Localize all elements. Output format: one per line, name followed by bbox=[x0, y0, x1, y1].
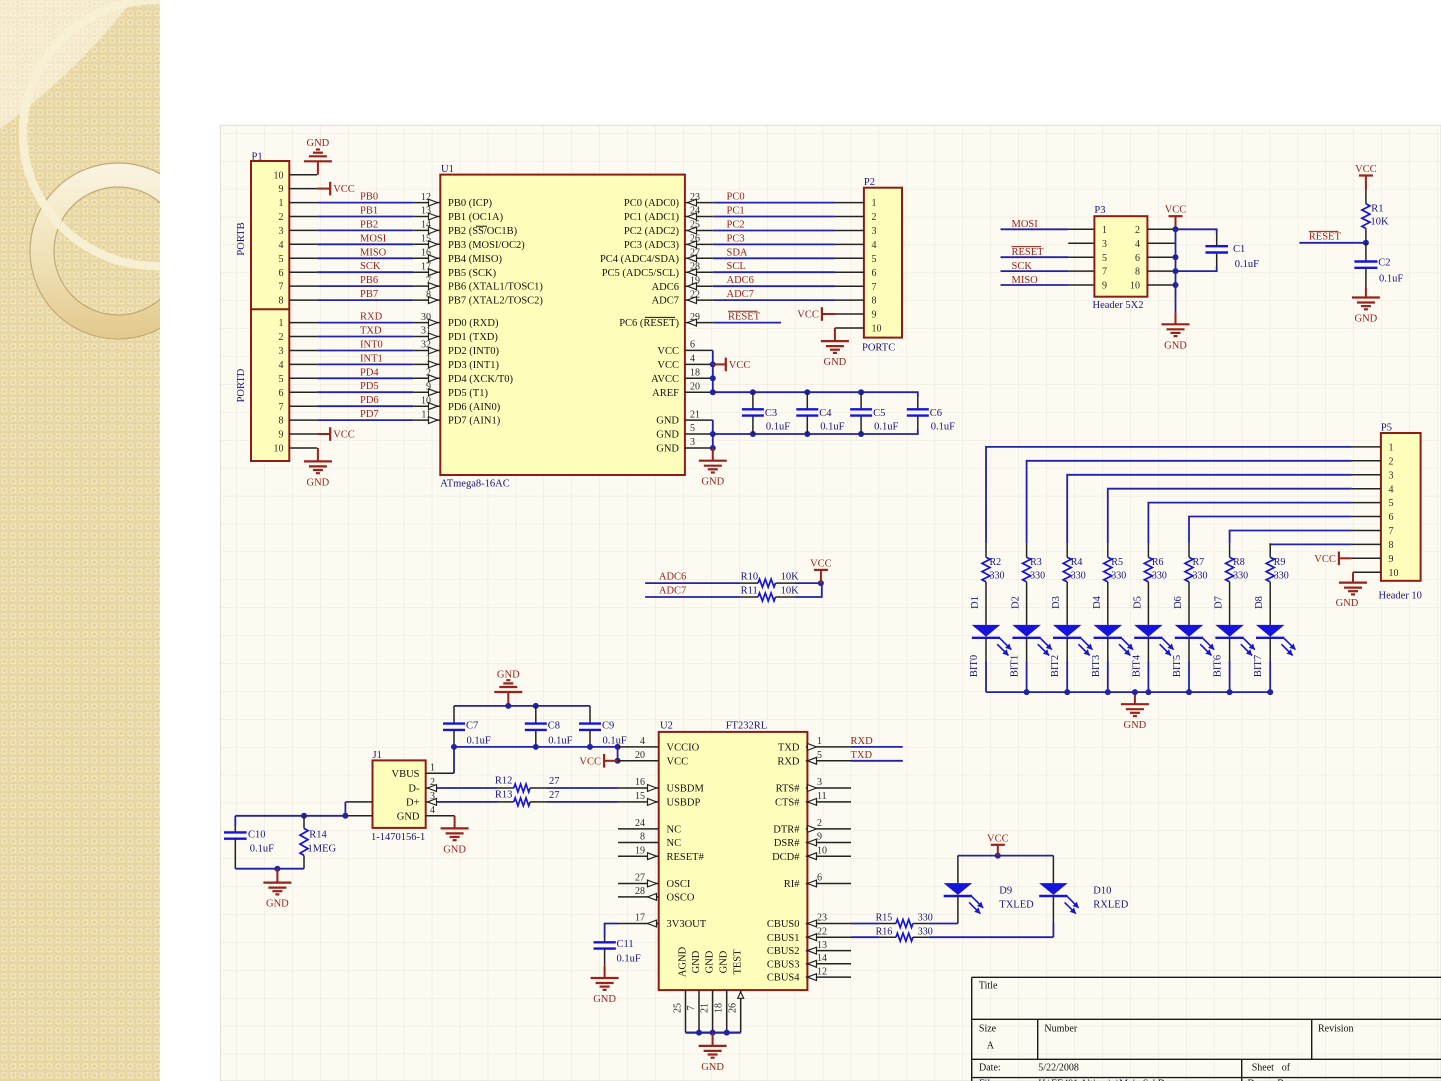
svg-text:17: 17 bbox=[421, 261, 431, 272]
svg-text:CBUS4: CBUS4 bbox=[767, 973, 800, 984]
wire P3 right pin lead bbox=[1147, 228, 1175, 230]
power VCC (P3) bbox=[1169, 215, 1183, 217]
wire P3 left pin lead bbox=[1068, 256, 1094, 258]
capacitor C7 0.1uF bbox=[453, 706, 455, 724]
wire P5 pin 4 to LED column 4 bbox=[1352, 488, 1381, 490]
resistor R15 330 bbox=[851, 923, 879, 925]
svg-text:3: 3 bbox=[1102, 239, 1107, 250]
capacitor C8 0.1uF bbox=[535, 706, 537, 724]
wire VCCIO bus bbox=[454, 746, 618, 748]
svg-text:1: 1 bbox=[430, 762, 435, 773]
U2 pin 4 VCCIO bbox=[618, 746, 659, 748]
svg-text:10: 10 bbox=[1130, 281, 1140, 292]
svg-text:DSR#: DSR# bbox=[774, 838, 800, 849]
svg-text:PB0: PB0 bbox=[360, 192, 378, 203]
svg-text:ADC6: ADC6 bbox=[652, 282, 679, 293]
svg-text:ADC6: ADC6 bbox=[727, 275, 754, 286]
wire VCCIO to VCC pin bbox=[617, 747, 619, 761]
svg-text:GND: GND bbox=[1336, 598, 1359, 609]
wire P3 left pin lead bbox=[1068, 284, 1094, 286]
capacitor C11 0.1uF bbox=[605, 924, 618, 939]
resistor R7 330 bbox=[1188, 543, 1190, 557]
wire net PB1 bbox=[317, 216, 413, 218]
wire net INT1 bbox=[317, 363, 413, 365]
U1 pin 27 PC4 (ADC4/SDA) bbox=[685, 257, 713, 259]
svg-text:27: 27 bbox=[635, 873, 645, 884]
U1 pin 13 PB1 (OC1A) bbox=[413, 216, 440, 218]
svg-text:0.1uF: 0.1uF bbox=[603, 736, 627, 747]
wire P1 pin lead bbox=[289, 216, 317, 218]
wire net TXD (U2 RXD) bbox=[851, 760, 903, 762]
svg-text:OSCI: OSCI bbox=[667, 879, 691, 890]
svg-text:9: 9 bbox=[1389, 554, 1394, 565]
svg-text:OSCO: OSCO bbox=[667, 893, 695, 904]
svg-text:P5: P5 bbox=[1381, 423, 1392, 434]
LED D6 BIT5 bbox=[1188, 596, 1190, 625]
svg-text:PB3 (MOSI/OC2): PB3 (MOSI/OC2) bbox=[448, 240, 525, 251]
ground GND (P2 pin 10) bbox=[835, 327, 864, 329]
svg-text:of: of bbox=[1282, 1062, 1291, 1073]
svg-text:VCC: VCC bbox=[667, 756, 689, 767]
schematic sheet with grid bbox=[220, 125, 1441, 1081]
wire net MISO bbox=[317, 257, 413, 259]
capacitor C9 0.1uF bbox=[589, 706, 591, 724]
U1 pin 8 PB7 (XTAL2/TOSC2) bbox=[413, 299, 440, 301]
wire P2 pin lead bbox=[835, 243, 864, 245]
wire R10 to VCC node bbox=[795, 582, 821, 584]
wire net MOSI bbox=[317, 243, 413, 245]
LED D4 BIT3 bbox=[1107, 596, 1109, 625]
ground GND (C11) bbox=[604, 966, 606, 978]
wire net PD7 bbox=[317, 419, 413, 421]
svg-text:D9: D9 bbox=[999, 886, 1012, 897]
J1 shield pin lead bbox=[345, 801, 372, 803]
svg-text:PORTB: PORTB bbox=[236, 222, 247, 255]
U1 pin 31 PD1 (TXD) bbox=[413, 336, 440, 338]
connector P1 bbox=[251, 161, 289, 461]
wire P3 left pin lead bbox=[1068, 270, 1094, 272]
svg-text:10: 10 bbox=[274, 170, 284, 181]
svg-text:BIT7: BIT7 bbox=[1253, 655, 1264, 677]
J1 pin 4 lead to ground bbox=[426, 815, 455, 817]
svg-text:10K: 10K bbox=[781, 572, 800, 583]
svg-text:1: 1 bbox=[1102, 225, 1107, 236]
svg-text:MISO: MISO bbox=[360, 247, 387, 258]
wire P2 pin lead bbox=[835, 216, 864, 218]
svg-text:VBUS: VBUS bbox=[391, 769, 419, 780]
svg-text:19: 19 bbox=[635, 845, 645, 856]
svg-text:5: 5 bbox=[690, 423, 695, 434]
svg-text:TXLED: TXLED bbox=[999, 900, 1034, 911]
svg-text:6: 6 bbox=[1389, 512, 1394, 523]
thin cream ring bbox=[23, 0, 289, 266]
svg-text:C8: C8 bbox=[548, 721, 560, 732]
wire net PD5 bbox=[317, 391, 413, 393]
wire P3 left pin lead bbox=[1068, 228, 1094, 230]
svg-text:R10: R10 bbox=[741, 572, 759, 583]
resistor R4 330 bbox=[1066, 543, 1068, 557]
wire P2 pin lead bbox=[835, 299, 864, 301]
U2 TEST pin glyph bbox=[738, 992, 744, 998]
svg-text:32: 32 bbox=[421, 340, 431, 351]
svg-text:R7: R7 bbox=[1193, 557, 1205, 568]
ground GND (C2) bbox=[1365, 288, 1367, 298]
svg-text:PD5 (T1): PD5 (T1) bbox=[448, 388, 488, 399]
svg-text:VCC: VCC bbox=[810, 558, 832, 569]
U2 pin 20 VCC bbox=[618, 760, 659, 762]
wire P5 pin 2 to LED column 2 bbox=[1352, 460, 1381, 462]
svg-text:22: 22 bbox=[817, 926, 827, 937]
svg-text:RXD: RXD bbox=[777, 756, 800, 767]
svg-text:7: 7 bbox=[426, 275, 431, 286]
svg-text:1: 1 bbox=[872, 198, 877, 209]
svg-text:BIT4: BIT4 bbox=[1131, 654, 1142, 677]
svg-text:19: 19 bbox=[690, 275, 700, 286]
svg-text:CBUS3: CBUS3 bbox=[767, 959, 800, 970]
U1 pin 1 PD3 (INT1) bbox=[413, 363, 440, 365]
svg-text:VCC: VCC bbox=[579, 756, 601, 767]
svg-text:ADC6: ADC6 bbox=[659, 572, 686, 583]
svg-text:PORTD: PORTD bbox=[236, 368, 247, 402]
wire C10/R14 bottom bus bbox=[235, 868, 304, 870]
svg-text:VCCIO: VCCIO bbox=[667, 743, 700, 754]
svg-text:GND: GND bbox=[1355, 314, 1378, 325]
svg-text:P3: P3 bbox=[1094, 205, 1105, 216]
svg-text:PB1: PB1 bbox=[360, 206, 378, 217]
svg-text:GND: GND bbox=[497, 670, 520, 681]
svg-text:GND: GND bbox=[656, 444, 679, 455]
wire to C1 bottom bbox=[1176, 267, 1217, 272]
LED D3 BIT2 bbox=[1066, 596, 1068, 625]
svg-text:DTR#: DTR# bbox=[773, 825, 800, 836]
svg-text:PD2 (INT0): PD2 (INT0) bbox=[448, 346, 500, 357]
svg-text:9: 9 bbox=[817, 832, 822, 843]
svg-text:RESET: RESET bbox=[728, 312, 761, 323]
svg-text:25: 25 bbox=[690, 220, 700, 231]
svg-text:18: 18 bbox=[690, 368, 700, 379]
U2 pin 12 CBUS4 bbox=[806, 976, 851, 978]
svg-text:31: 31 bbox=[421, 326, 431, 337]
svg-text:TEST: TEST bbox=[733, 949, 744, 975]
svg-text:PC0: PC0 bbox=[727, 192, 745, 203]
power VCC (pullups) bbox=[814, 569, 828, 571]
IC U2 FT232RL body bbox=[659, 732, 808, 990]
svg-text:17: 17 bbox=[635, 913, 645, 924]
wire P2 pin lead bbox=[835, 285, 864, 287]
svg-text:1: 1 bbox=[426, 354, 431, 365]
svg-text:USBDM: USBDM bbox=[667, 784, 705, 795]
wire P5 pin 5 to LED column 5 bbox=[1352, 502, 1381, 504]
svg-text:U1: U1 bbox=[441, 164, 454, 175]
wire P3 right pin lead bbox=[1147, 270, 1175, 272]
svg-text:D5: D5 bbox=[1132, 596, 1143, 609]
overline SS on PB2 name bbox=[476, 225, 487, 227]
svg-text:12: 12 bbox=[421, 192, 431, 203]
svg-text:CTS#: CTS# bbox=[775, 798, 800, 809]
wire net ADC6 (pullup) bbox=[645, 582, 741, 584]
svg-text:R13: R13 bbox=[495, 790, 513, 801]
capacitor C4 0.1uF bbox=[806, 392, 808, 409]
U1 pin 23 PC0 (ADC0) bbox=[685, 202, 713, 204]
svg-text:TXD: TXD bbox=[778, 743, 800, 754]
U2 pin 23 CBUS0 bbox=[806, 923, 851, 925]
svg-text:330: 330 bbox=[918, 913, 933, 924]
resistor R16 330 bbox=[851, 936, 879, 938]
svg-text:4: 4 bbox=[640, 736, 645, 747]
wire P5 pin 3 to LED column 3 bbox=[1352, 474, 1381, 476]
resistor R5 330 bbox=[1107, 543, 1109, 557]
wire net PB6 bbox=[317, 285, 413, 287]
svg-text:24: 24 bbox=[690, 206, 700, 217]
U1 pin 18 AVCC bbox=[685, 377, 713, 379]
wire net SCL bbox=[713, 271, 835, 273]
svg-text:D1: D1 bbox=[970, 596, 981, 609]
wire U2 ground bus bbox=[686, 1031, 741, 1033]
svg-text:BIT2: BIT2 bbox=[1050, 655, 1061, 677]
title block frame bbox=[972, 976, 1441, 978]
svg-text:RI#: RI# bbox=[784, 879, 801, 890]
wire P1 pin lead bbox=[289, 322, 317, 324]
wire net ADC6 bbox=[713, 285, 835, 287]
svg-text:MISO: MISO bbox=[1012, 275, 1039, 286]
svg-text:23: 23 bbox=[817, 913, 827, 924]
svg-text:PC6 (RESET): PC6 (RESET) bbox=[619, 318, 679, 329]
svg-text:13: 13 bbox=[817, 940, 827, 951]
svg-text:GND: GND bbox=[701, 1062, 724, 1073]
svg-text:Header 10: Header 10 bbox=[1379, 591, 1422, 602]
svg-text:0.1uF: 0.1uF bbox=[617, 954, 641, 965]
wire net SCK bbox=[317, 271, 413, 273]
svg-text:0.1uF: 0.1uF bbox=[931, 422, 955, 433]
svg-text:INT0: INT0 bbox=[360, 340, 383, 351]
svg-text:10K: 10K bbox=[781, 586, 800, 597]
svg-text:8: 8 bbox=[279, 416, 284, 427]
svg-text:7: 7 bbox=[686, 1006, 697, 1011]
ground symbol GND (top of P1) bbox=[317, 161, 319, 174]
svg-text:7: 7 bbox=[279, 402, 284, 413]
resistor R6 330 bbox=[1147, 543, 1149, 557]
svg-text:14: 14 bbox=[817, 953, 827, 964]
svg-text:2: 2 bbox=[279, 212, 284, 223]
wire P1 pin lead bbox=[289, 377, 317, 379]
wire net RXD (U2 TXD) bbox=[851, 746, 903, 748]
ground GND (above C7-C9) bbox=[494, 691, 522, 693]
resistor R10 10K bbox=[741, 582, 758, 584]
ground GND (J1) bbox=[454, 816, 456, 829]
svg-text:2: 2 bbox=[426, 368, 431, 379]
svg-text:GND: GND bbox=[691, 950, 702, 973]
svg-text:1: 1 bbox=[279, 198, 284, 209]
wire net TXD bbox=[317, 336, 413, 338]
svg-text:3: 3 bbox=[1389, 470, 1394, 481]
U1 pin 30 PD0 (RXD) bbox=[413, 322, 440, 324]
IC U1 ATmega8-16AC body bbox=[440, 175, 685, 475]
wire P1 pin lead bbox=[289, 391, 317, 393]
svg-text:C4: C4 bbox=[819, 408, 832, 419]
U1 pin 12 PB0 (ICP) bbox=[413, 202, 440, 204]
svg-text:2: 2 bbox=[872, 212, 877, 223]
power VCC (P2 pin 9) bbox=[835, 313, 864, 315]
svg-text:VCC: VCC bbox=[333, 430, 355, 441]
svg-text:3V3OUT: 3V3OUT bbox=[667, 919, 707, 930]
svg-text:PB7: PB7 bbox=[360, 289, 378, 300]
wire P1 pin lead bbox=[289, 229, 317, 231]
wire net SDA bbox=[713, 257, 835, 259]
wire C10/R14 top bus bbox=[235, 815, 345, 817]
svg-text:SCL: SCL bbox=[727, 261, 746, 272]
svg-text:RESET: RESET bbox=[1012, 247, 1045, 258]
svg-text:C3: C3 bbox=[765, 408, 777, 419]
svg-text:AREF: AREF bbox=[652, 388, 679, 399]
svg-text:PC0 (ADC0): PC0 (ADC0) bbox=[624, 198, 680, 209]
svg-text:6: 6 bbox=[279, 388, 284, 399]
svg-text:330: 330 bbox=[1152, 570, 1167, 581]
ground GND (U1) bbox=[712, 448, 714, 461]
svg-text:6: 6 bbox=[279, 268, 284, 279]
wire GND pins join at U1 bbox=[712, 420, 714, 448]
U2 pin 13 CBUS2 bbox=[806, 950, 851, 952]
svg-text:R3: R3 bbox=[1030, 557, 1042, 568]
LED D8 BIT7 bbox=[1269, 596, 1271, 625]
U1 pin 15 PB3 (MOSI/OC2) bbox=[413, 243, 440, 245]
ground GND (P5 pin 10) bbox=[1353, 571, 1381, 573]
svg-text:ATmega8-16AC: ATmega8-16AC bbox=[440, 479, 509, 490]
svg-text:C9: C9 bbox=[602, 721, 614, 732]
svg-text:BIT0: BIT0 bbox=[969, 655, 980, 677]
LED D10 RXLED bbox=[1052, 856, 1054, 884]
U2 pin 22 CBUS1 bbox=[806, 936, 851, 938]
U1 pin 20 AREF bbox=[685, 391, 713, 393]
svg-text:28: 28 bbox=[690, 261, 700, 272]
U1 pin 29 PC6 (RESET) bbox=[685, 322, 713, 324]
svg-text:GND: GND bbox=[656, 430, 679, 441]
svg-text:330: 330 bbox=[1274, 570, 1289, 581]
svg-text:330: 330 bbox=[1193, 570, 1208, 581]
U2 pin 26 TEST bbox=[740, 990, 742, 1033]
svg-text:GND: GND bbox=[656, 416, 679, 427]
svg-text:PB1 (OC1A): PB1 (OC1A) bbox=[448, 212, 504, 223]
svg-text:6: 6 bbox=[872, 268, 877, 279]
decorative left strip bbox=[0, 0, 289, 1081]
svg-text:GND: GND bbox=[593, 994, 616, 1005]
wire P2 pin lead bbox=[835, 202, 864, 204]
U1 pin 7 PB6 (XTAL1/TOSC1) bbox=[413, 285, 440, 287]
wire VCC/AVCC join at U1 bbox=[712, 350, 714, 392]
svg-text:VCC: VCC bbox=[987, 833, 1009, 844]
svg-text:PD6: PD6 bbox=[360, 395, 379, 406]
U2 pin 2 DTR# bbox=[806, 828, 851, 830]
svg-text:MOSI: MOSI bbox=[1012, 219, 1039, 230]
wire net PB0 bbox=[317, 202, 413, 204]
svg-text:0.1uF: 0.1uF bbox=[766, 422, 790, 433]
wire P3 right pin lead bbox=[1147, 242, 1175, 244]
wire P1 pin lead bbox=[289, 350, 317, 352]
wire VBUS to C7 column bbox=[453, 747, 455, 773]
svg-text:330: 330 bbox=[990, 570, 1005, 581]
wire net RESET (R1/C2) bbox=[1299, 242, 1366, 244]
svg-text:26: 26 bbox=[690, 234, 700, 245]
resistor R9 330 bbox=[1269, 543, 1271, 557]
svg-text:C11: C11 bbox=[617, 939, 634, 950]
svg-text:GND: GND bbox=[307, 477, 330, 488]
svg-text:RESET: RESET bbox=[1309, 232, 1342, 243]
svg-text:10: 10 bbox=[274, 444, 284, 455]
svg-text:20: 20 bbox=[690, 381, 700, 392]
svg-text:8: 8 bbox=[426, 289, 431, 300]
svg-text:Date:: Date: bbox=[979, 1062, 1001, 1073]
svg-text:22: 22 bbox=[690, 289, 700, 300]
wire LED cathode bus bbox=[986, 691, 1270, 693]
svg-text:GND: GND bbox=[824, 357, 847, 368]
svg-text:PD0 (RXD): PD0 (RXD) bbox=[448, 318, 499, 329]
svg-text:10: 10 bbox=[421, 395, 431, 406]
thick donut ring bbox=[30, 163, 206, 339]
svg-text:7: 7 bbox=[1389, 526, 1394, 537]
svg-text:Header 5X2: Header 5X2 bbox=[1093, 300, 1144, 311]
svg-text:D+: D+ bbox=[406, 798, 420, 809]
U1 pin 2 PD4 (XCK/T0) bbox=[413, 377, 440, 379]
svg-text:R6: R6 bbox=[1152, 557, 1164, 568]
svg-text:PC4 (ADC4/SDA): PC4 (ADC4/SDA) bbox=[600, 254, 680, 265]
power VCC (LEDs) bbox=[991, 844, 1005, 846]
svg-text:4: 4 bbox=[690, 354, 695, 365]
svg-text:GND: GND bbox=[719, 950, 730, 973]
svg-text:RTS#: RTS# bbox=[776, 784, 801, 795]
svg-text:30: 30 bbox=[421, 312, 431, 323]
svg-text:5/22/2008: 5/22/2008 bbox=[1038, 1062, 1079, 1073]
J1 left gnd pin lead bbox=[345, 815, 372, 817]
svg-text:TXD: TXD bbox=[851, 750, 873, 761]
wire P1 pin lead bbox=[289, 257, 317, 259]
light corner quarter bbox=[0, 0, 133, 129]
U1 pin 14 PB2 (SS/OC1B) bbox=[413, 229, 440, 231]
svg-text:8: 8 bbox=[1135, 267, 1140, 278]
svg-text:2: 2 bbox=[279, 332, 284, 343]
svg-text:10K: 10K bbox=[1371, 216, 1390, 227]
svg-text:VCC: VCC bbox=[657, 360, 679, 371]
svg-text:8: 8 bbox=[640, 832, 645, 843]
wire P2 pin lead bbox=[835, 230, 864, 232]
svg-text:PB7 (XTAL2/TOSC2): PB7 (XTAL2/TOSC2) bbox=[448, 296, 543, 307]
svg-text:0.1uF: 0.1uF bbox=[1379, 274, 1403, 285]
connector P2 PORTC bbox=[864, 188, 902, 338]
svg-text:AVCC: AVCC bbox=[651, 374, 679, 385]
wire net PC2 bbox=[713, 230, 835, 232]
svg-text:GND: GND bbox=[705, 950, 716, 973]
svg-text:5: 5 bbox=[872, 254, 877, 265]
svg-text:R9: R9 bbox=[1274, 557, 1286, 568]
svg-text:16: 16 bbox=[421, 248, 431, 259]
svg-text:DCD#: DCD# bbox=[772, 852, 800, 863]
U2 pin 21 GND bbox=[712, 990, 714, 1033]
power VCC (U2) bbox=[604, 760, 618, 762]
wire C7-C9 ground bus bbox=[454, 705, 590, 707]
svg-text:26: 26 bbox=[728, 1003, 739, 1013]
svg-text:C5: C5 bbox=[873, 408, 885, 419]
svg-text:25: 25 bbox=[673, 1003, 684, 1013]
wire P1 pin lead bbox=[289, 271, 317, 273]
power VCC (U1 supply) bbox=[713, 363, 726, 365]
svg-text:330: 330 bbox=[1030, 570, 1045, 581]
U2 pin 25 AGND bbox=[685, 990, 687, 1033]
U2 pin 19 RESET# bbox=[618, 855, 659, 857]
svg-text:27: 27 bbox=[690, 248, 700, 259]
wire net PD6 bbox=[317, 405, 413, 407]
resistor R3 330 bbox=[1026, 543, 1028, 557]
wire P3 left pin lead bbox=[1068, 242, 1094, 244]
svg-text:ADC7: ADC7 bbox=[659, 586, 686, 597]
svg-text:D3: D3 bbox=[1051, 596, 1062, 609]
